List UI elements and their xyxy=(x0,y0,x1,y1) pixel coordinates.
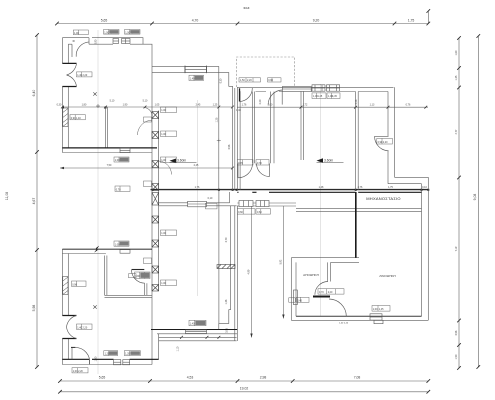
svg-text:4,77: 4,77 xyxy=(455,129,458,134)
svg-text:1,00: 1,00 xyxy=(74,32,79,35)
bottom-left corner door xyxy=(72,347,90,364)
svg-text:1,50: 1,50 xyxy=(95,356,98,361)
apotheke door xyxy=(315,282,328,295)
svg-text:0,98: 0,98 xyxy=(455,330,458,335)
top-left unit xyxy=(62,38,143,45)
svg-text:9,20: 9,20 xyxy=(313,18,320,22)
corridor between units lower xyxy=(234,88,236,190)
dashed canopy xyxy=(237,57,295,87)
svg-text:1,38: 1,38 xyxy=(225,299,228,304)
svg-text:2,20: 2,20 xyxy=(259,99,262,104)
svg-text:2,20: 2,20 xyxy=(383,141,388,144)
svg-text:2,45: 2,45 xyxy=(196,103,201,106)
svg-text:ΑΠΟΘΗΚΗ: ΑΠΟΘΗΚΗ xyxy=(303,273,319,277)
svg-text:0,45: 0,45 xyxy=(297,300,302,303)
svg-text:1,40: 1,40 xyxy=(190,323,195,326)
right unit xyxy=(237,86,393,88)
stair shaft xyxy=(151,66,153,364)
svg-text:7,19: 7,19 xyxy=(455,246,458,251)
svg-text:2,20: 2,20 xyxy=(83,326,88,329)
svg-text:1,25: 1,25 xyxy=(213,103,218,106)
svg-text:1,40: 1,40 xyxy=(236,109,241,112)
svg-text:2,20: 2,20 xyxy=(328,291,333,294)
svg-text:7,08: 7,08 xyxy=(354,376,361,380)
svg-text:1,25: 1,25 xyxy=(215,117,218,122)
svg-text:1,45: 1,45 xyxy=(332,95,337,98)
svg-text:11,08: 11,08 xyxy=(5,192,9,200)
svg-text:3.60m: 3.60m xyxy=(324,158,333,162)
svg-text:0,70: 0,70 xyxy=(116,188,121,191)
svg-text:5,65: 5,65 xyxy=(101,18,108,22)
heavy walls xyxy=(62,63,421,359)
svg-text:0,90: 0,90 xyxy=(72,283,77,286)
svg-text:1,00: 1,00 xyxy=(161,232,166,235)
svg-text:0,10: 0,10 xyxy=(422,186,427,189)
svg-text:1,05: 1,05 xyxy=(155,103,160,106)
svg-text:5,10: 5,10 xyxy=(110,100,115,103)
svg-text:1,76: 1,76 xyxy=(195,186,200,189)
svg-text:1,10: 1,10 xyxy=(177,346,180,351)
svg-text:1,00: 1,00 xyxy=(115,243,120,246)
svg-text:2,20: 2,20 xyxy=(78,370,83,373)
svg-text:0,90: 0,90 xyxy=(268,79,273,82)
svg-text:ΜΗΧΑΝΟΣΤΑΣΙΟ: ΜΗΧΑΝΟΣΤΑΣΙΟ xyxy=(366,196,401,201)
svg-text:1,48: 1,48 xyxy=(319,186,324,189)
svg-text:5,98: 5,98 xyxy=(32,305,36,312)
closet door 2 xyxy=(257,164,270,177)
svg-text:1,75: 1,75 xyxy=(388,186,393,189)
svg-text:1,35: 1,35 xyxy=(455,75,458,80)
U stair bottom unit xyxy=(105,256,107,296)
svg-text:1,80: 1,80 xyxy=(82,103,87,106)
svg-text:0,90: 0,90 xyxy=(135,275,140,278)
linotheke door xyxy=(329,299,346,316)
svg-text:1,45: 1,45 xyxy=(318,95,323,98)
svg-text:2,20: 2,20 xyxy=(247,79,252,82)
svg-text:1,00: 1,00 xyxy=(115,159,120,162)
shaft doors xyxy=(138,121,153,136)
svg-text:0,10: 0,10 xyxy=(208,197,213,200)
svg-text:4,67: 4,67 xyxy=(32,198,36,205)
french door bottom xyxy=(67,316,77,339)
crosses xyxy=(73,40,221,309)
svg-text:2,45: 2,45 xyxy=(194,164,199,167)
svg-text:2,20: 2,20 xyxy=(83,74,88,77)
band bottom walls xyxy=(159,192,230,203)
svg-text:2,98: 2,98 xyxy=(260,376,267,380)
svg-text:0,90: 0,90 xyxy=(94,39,97,44)
hatched piers xyxy=(63,108,68,295)
tiny texts inside boxes xyxy=(71,31,388,373)
svg-text:4,70: 4,70 xyxy=(192,18,199,22)
svg-text:0,60: 0,60 xyxy=(257,211,262,214)
svg-text:1,00: 1,00 xyxy=(373,308,378,311)
svg-text:1,00: 1,00 xyxy=(161,109,166,112)
svg-text:0,76: 0,76 xyxy=(406,104,411,107)
svg-text:3,70: 3,70 xyxy=(225,237,228,242)
svg-text:4,99: 4,99 xyxy=(248,269,251,274)
dense text smudges in boxes xyxy=(109,30,206,355)
svg-text:6,40: 6,40 xyxy=(32,90,36,97)
svg-text:1,13: 1,13 xyxy=(370,104,375,107)
svg-text:1,90: 1,90 xyxy=(123,103,128,106)
svg-text:0,70: 0,70 xyxy=(257,162,262,165)
svg-text:1,40 2,20: 1,40 2,20 xyxy=(339,323,349,325)
svg-text:1,50: 1,50 xyxy=(455,354,458,359)
svg-text:1,45: 1,45 xyxy=(379,308,384,311)
svg-text:1,00: 1,00 xyxy=(161,282,166,285)
svg-text:0,70: 0,70 xyxy=(238,162,243,165)
svg-text:1,00: 1,00 xyxy=(161,159,166,162)
right unit top door 1 xyxy=(239,88,241,101)
svg-text:0,60: 0,60 xyxy=(238,211,243,214)
svg-text:7,50: 7,50 xyxy=(107,164,112,167)
svg-text:1,60: 1,60 xyxy=(455,50,458,55)
svg-text:4,53: 4,53 xyxy=(187,376,194,380)
level flags xyxy=(170,158,344,163)
bottom-left unit xyxy=(61,249,63,364)
svg-text:9,08: 9,08 xyxy=(473,194,477,201)
french door top xyxy=(67,63,77,86)
svg-text:3.60m: 3.60m xyxy=(177,159,186,163)
svg-text:ΛΙΝΟΘΗΚΗ: ΛΙΝΟΘΗΚΗ xyxy=(379,274,396,278)
svg-text:0,96: 0,96 xyxy=(228,144,231,149)
svg-text:5,10: 5,10 xyxy=(143,100,148,103)
svg-text:0,30: 0,30 xyxy=(220,78,223,83)
U-stair door xyxy=(132,269,145,271)
top-left corner door xyxy=(72,38,89,57)
svg-text:0,75: 0,75 xyxy=(226,328,229,333)
svg-text:1,00: 1,00 xyxy=(161,133,166,136)
shaft X-blocks xyxy=(152,112,235,292)
right wall door xyxy=(375,136,389,151)
svg-text:5,92: 5,92 xyxy=(279,259,282,264)
svg-text:1,40: 1,40 xyxy=(76,117,81,120)
svg-text:19,02: 19,02 xyxy=(240,387,249,391)
right unit top door 2 xyxy=(281,90,283,105)
svg-text:ΦΑΣ: ΦΑΣ xyxy=(243,6,249,10)
heavy mid dimension line y=189.8 xyxy=(151,189,429,191)
svg-text:0,70: 0,70 xyxy=(319,291,324,294)
svg-text:5,65: 5,65 xyxy=(99,376,106,380)
svg-text:1,76: 1,76 xyxy=(242,104,247,107)
svg-text:0,30: 0,30 xyxy=(57,103,62,106)
closet door 1 xyxy=(238,164,253,178)
svg-text:1,50: 1,50 xyxy=(240,79,245,82)
svg-text:1,75: 1,75 xyxy=(408,18,415,22)
